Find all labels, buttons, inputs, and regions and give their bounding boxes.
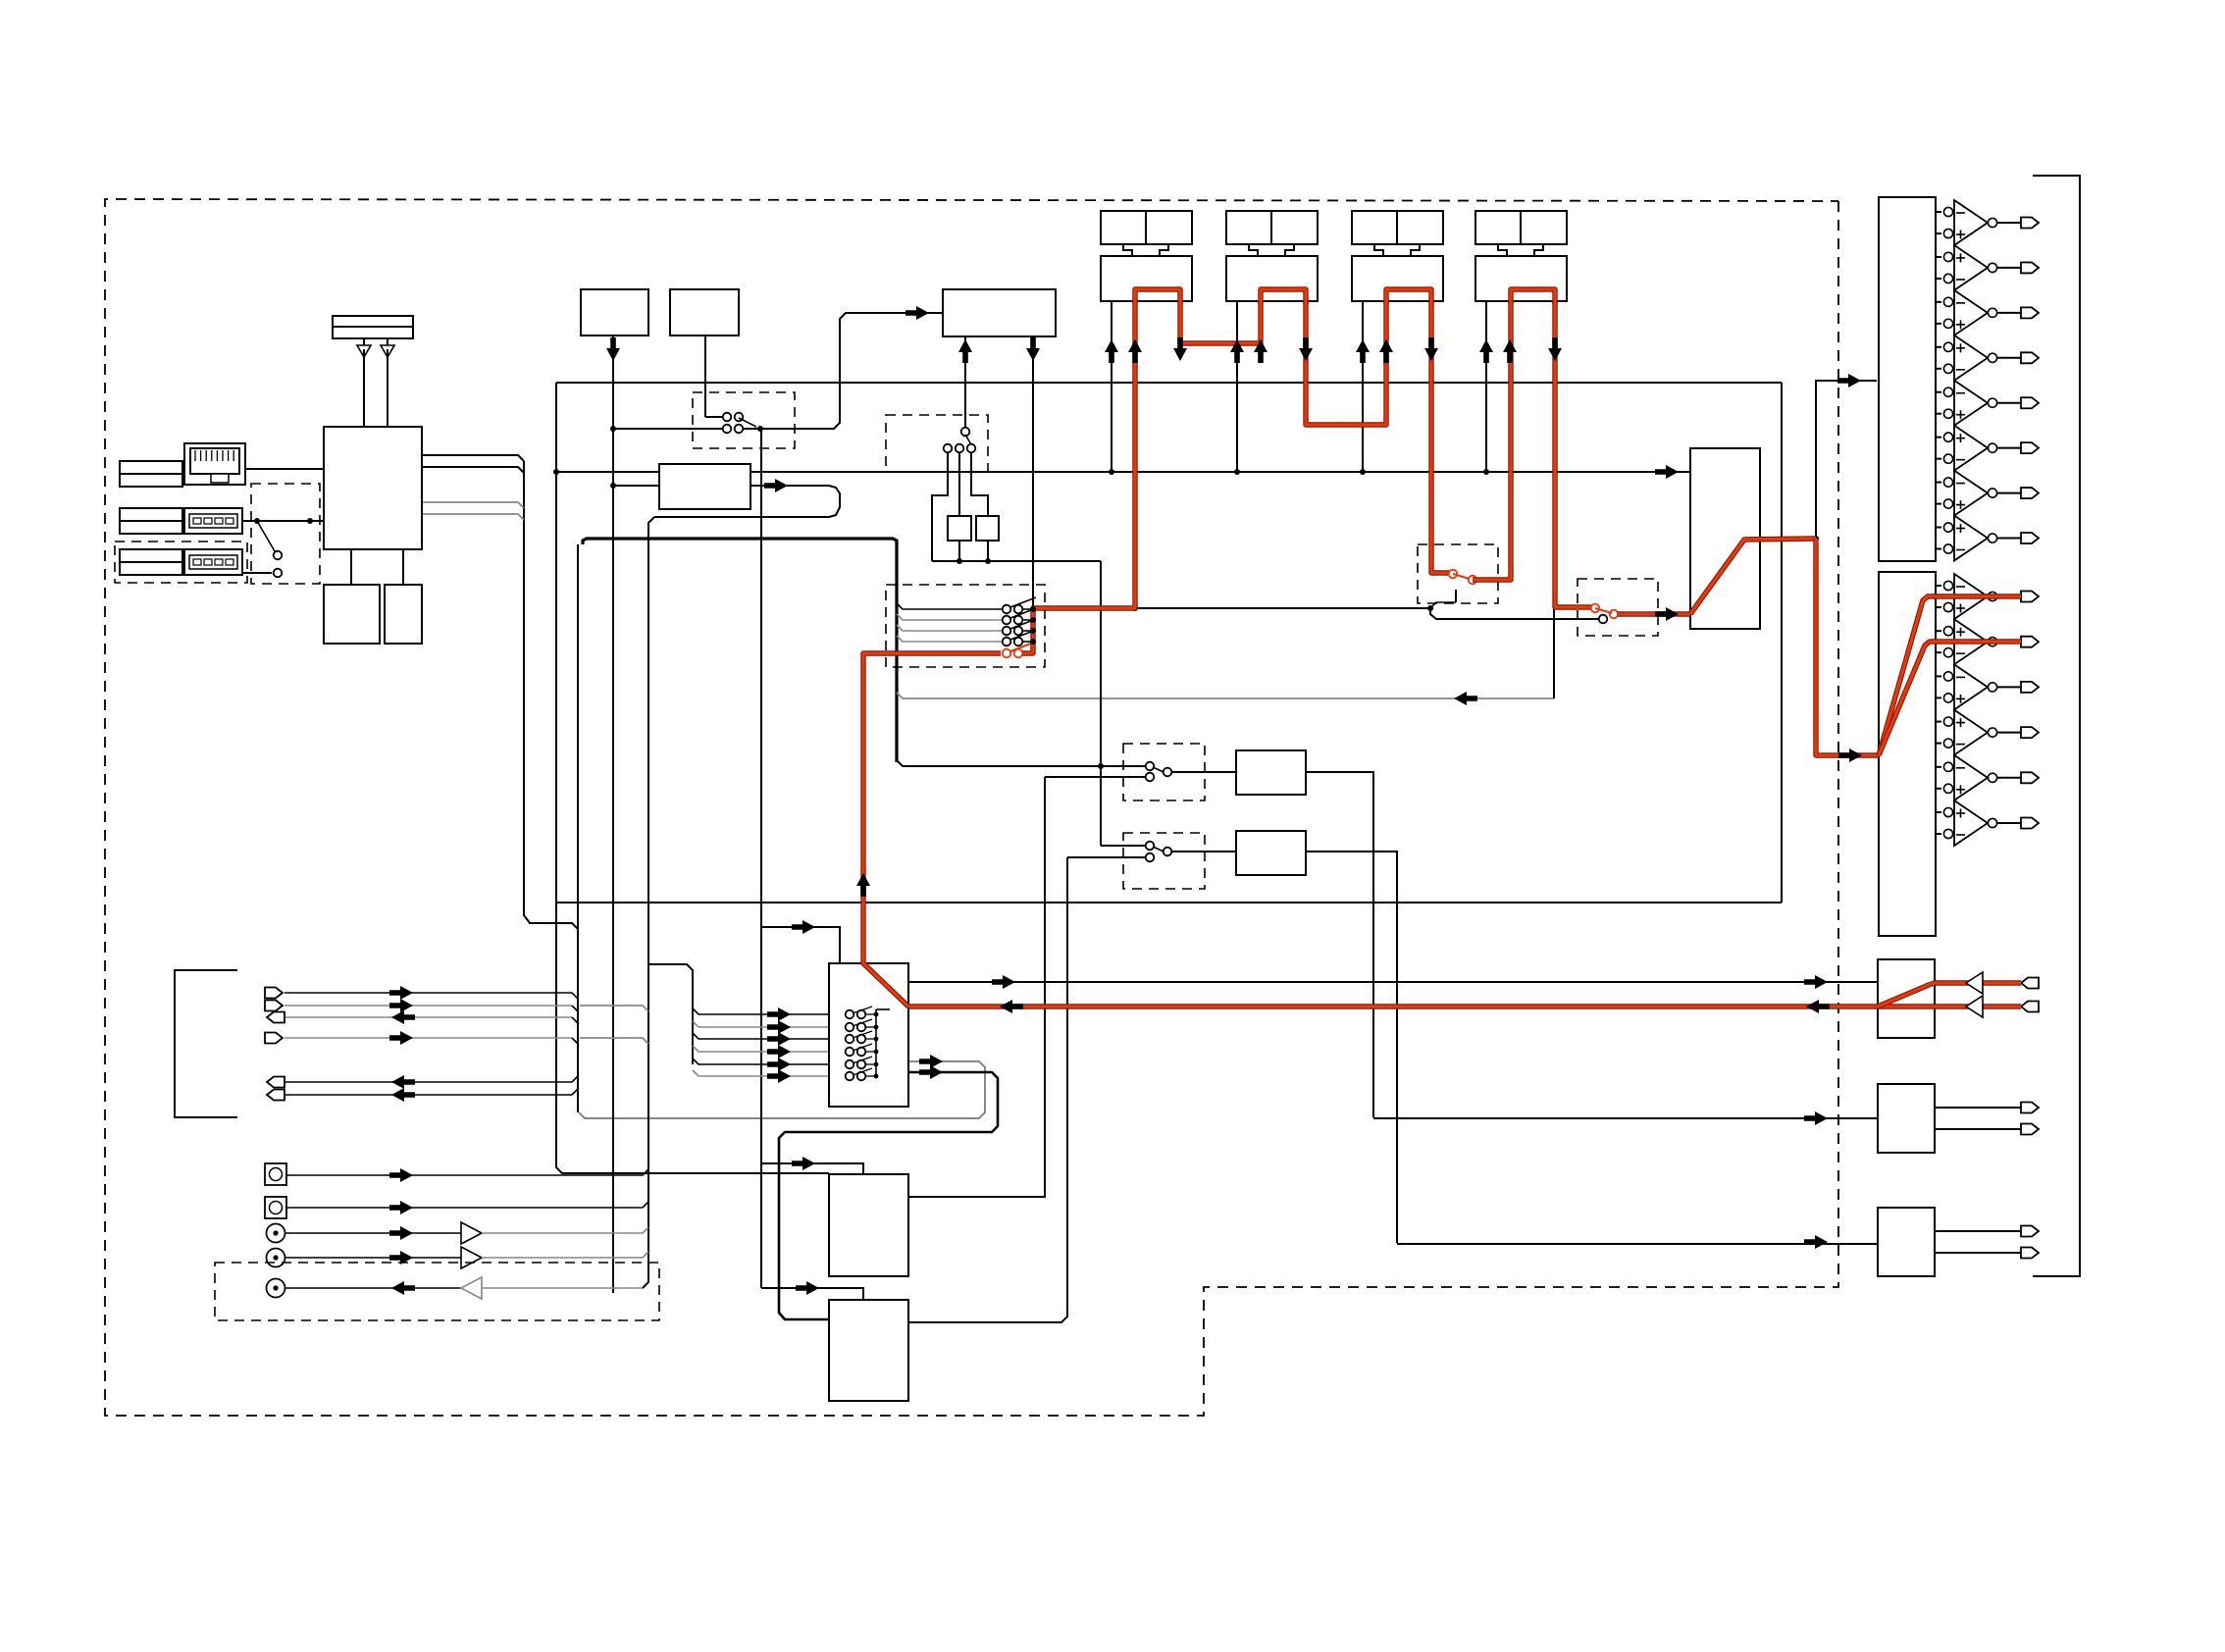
wire xtal bus y572	[932, 560, 1101, 562]
channel 1 links	[1123, 244, 1168, 256]
wire D1 alt y792	[1045, 776, 1146, 778]
channel 1 main box	[1101, 256, 1192, 301]
block pll	[943, 289, 1056, 336]
antenna symbols	[357, 338, 394, 427]
switchB dashed box	[1578, 579, 1658, 636]
wire osc2 down	[704, 336, 706, 417]
channel 3 arrows	[0, 0, 1, 1]
usb select switch	[242, 518, 324, 577]
wire riser C x706	[648, 964, 693, 1064]
bank1 opamps	[1936, 200, 2039, 561]
wire pll up line	[964, 336, 966, 428]
wire bank1 feed	[1816, 381, 1877, 539]
phones amp triangles	[1966, 972, 1983, 1017]
wire E1 out	[1306, 772, 1373, 1117]
coax jack 1	[267, 1222, 649, 1244]
channel 2 head box	[1226, 211, 1318, 244]
wire bus y920	[556, 902, 1782, 903]
arrow overlay layer	[389, 306, 1862, 1295]
selector switch rows	[897, 597, 1036, 645]
rj45 jack	[184, 443, 245, 485]
bank2 opamps	[1936, 574, 2039, 846]
usb dashed box	[115, 542, 247, 583]
wire channel 4 ctrl	[1483, 301, 1489, 475]
channel 1 arrows	[0, 0, 1, 1]
wire x1122	[1098, 561, 1104, 846]
selector bus	[1032, 608, 1034, 653]
wire phones feed y1001	[908, 981, 1878, 983]
wire mix input rows	[693, 1008, 829, 1076]
block E1	[1236, 750, 1306, 795]
wire riser B x661	[643, 517, 654, 1288]
D1 dashed box	[1123, 744, 1205, 800]
terminal bars 2	[120, 508, 182, 534]
channel 2 links	[1249, 244, 1294, 256]
wire mix out gray loop	[579, 1061, 985, 1118]
block dac b	[829, 1300, 908, 1401]
crystal X2	[976, 516, 999, 541]
terminal bars 1	[120, 461, 182, 487]
block host mcu	[613, 464, 750, 509]
wire ch2 out vert	[1306, 301, 1386, 425]
wire ch1 in vert	[1132, 301, 1138, 611]
wire monitor feed y1140	[1373, 1117, 1878, 1119]
bank1 box	[1879, 197, 1936, 561]
node bank feed split	[1813, 536, 1819, 542]
wire main bus y481	[553, 469, 1690, 475]
switch1 contacts	[613, 413, 763, 434]
D1 switch	[1146, 762, 1236, 782]
switchA wiring	[1427, 573, 1456, 611]
crystal X1	[948, 516, 971, 541]
channel 1 head box	[1101, 211, 1192, 244]
optical jack 1	[265, 1163, 648, 1185]
wire pll down line	[1032, 336, 1034, 608]
wire channel 1 ctrl	[1109, 301, 1114, 475]
channel 4 main box	[1475, 256, 1567, 301]
wire xtal3 path	[971, 452, 991, 564]
wire ch3 out vert	[1430, 301, 1432, 573]
channel 3 links	[1374, 244, 1420, 256]
tuner sub block 2	[385, 549, 422, 644]
channel 2 arrows	[0, 0, 1, 1]
wire ch1 out vert	[1180, 301, 1261, 343]
wire host out P1	[654, 486, 840, 517]
wire xtal2 path	[957, 452, 962, 564]
bank2 feed arrow	[1816, 754, 1879, 756]
block osc2	[670, 289, 739, 336]
wire ch4 in vert	[1510, 301, 1512, 580]
wire dac b feed y1313	[761, 1288, 863, 1300]
block phones amp	[1878, 959, 1935, 1038]
dashed out box	[215, 1263, 659, 1320]
wire switch1 to pll	[760, 313, 943, 429]
channel 4 links	[1498, 244, 1543, 256]
selector dashed box	[886, 585, 1045, 667]
wire riser host x776	[760, 429, 762, 1288]
wire selector feed chamfer	[897, 760, 1148, 766]
wire channel 3 ctrl	[1360, 301, 1366, 475]
wire channel 2 ctrl	[1234, 301, 1240, 475]
block osc1	[581, 289, 648, 336]
wire monitor feed y1268	[1397, 1243, 1878, 1245]
usb jack 2	[184, 549, 242, 575]
red path up arrow	[0, 0, 1, 1]
wire bus y620	[1033, 607, 1430, 609]
wire dac c feed y1186	[761, 1163, 863, 1174]
block output router	[1690, 448, 1760, 629]
wire rj45 to tuner	[245, 468, 324, 470]
tuner sub block 1	[324, 549, 380, 644]
phones jacks	[2021, 978, 2039, 1012]
node osc1 junction	[610, 426, 616, 489]
coax out jack	[267, 1277, 644, 1299]
wire riser tuner x534	[524, 461, 578, 929]
wire ch4 out vert	[1554, 301, 1556, 608]
wire xtal1 path	[932, 452, 948, 561]
usb jack 1	[184, 508, 242, 534]
wire link risers y1058	[580, 1038, 648, 1044]
wire riser clock x567	[556, 383, 829, 1173]
monitor out wires	[1935, 1103, 2039, 1135]
channel 4 arrows	[0, 0, 1, 1]
wire tuner outs	[422, 455, 524, 520]
wire rec return vert	[1553, 608, 1555, 698]
block monitor out	[1878, 1084, 1935, 1153]
wire thick bus y549	[583, 539, 897, 762]
optical jack 2	[265, 1197, 648, 1218]
wire gray rec y712	[897, 693, 1554, 698]
analog frame bracket	[2033, 176, 2080, 1276]
D2 dashed box	[1123, 833, 1205, 889]
D2 switch	[1101, 842, 1236, 862]
block mix dsp	[829, 963, 908, 1107]
usb select dashed box	[251, 484, 320, 584]
wire clock riser x1816	[1781, 383, 1783, 903]
channel 2 main box	[1226, 256, 1318, 301]
bracket digital group	[175, 970, 237, 1117]
wire link risers y1025	[580, 1006, 648, 1011]
switch2 dashed box	[886, 415, 988, 472]
red highlighted signal path	[863, 289, 2021, 1007]
channel 3 main box	[1352, 256, 1443, 301]
channel 4 head box	[1475, 211, 1567, 244]
wire E2 out	[1306, 852, 1397, 1243]
antenna box	[333, 316, 413, 338]
switchA dashed box	[1418, 544, 1498, 603]
wire b out y1348	[908, 857, 1067, 1322]
phones wiring	[1817, 983, 2021, 1007]
wire mix out black loop	[779, 1072, 998, 1319]
wire riser x625	[612, 336, 614, 1293]
wire riser A x589	[577, 544, 579, 1112]
wire c out y1220	[908, 777, 1045, 1197]
switchB open contact	[1599, 615, 1608, 624]
wire mix top feed y945	[761, 927, 840, 964]
bank2 box	[1879, 572, 1936, 936]
digital io plugs	[265, 988, 578, 1101]
tuner block	[324, 427, 422, 549]
coax jack 2	[267, 1247, 649, 1268]
wire osc1 down arrow	[0, 0, 1, 1]
mix internal switches	[846, 1007, 890, 1080]
block line out	[1878, 1208, 1935, 1276]
wire clock bus y390	[556, 382, 1782, 384]
wire D2 alt y874	[1067, 856, 1146, 858]
wire switchB out	[1614, 613, 1690, 615]
line out wires	[1935, 1226, 2039, 1259]
block dac c	[829, 1174, 908, 1276]
channel 3 head box	[1352, 211, 1443, 244]
terminal bars 3	[120, 549, 182, 575]
switch1 dashed box	[693, 392, 795, 448]
wire stub y632 to switchB	[1430, 608, 1598, 619]
switch2 3pos	[944, 428, 976, 453]
outer dashed boundary	[105, 199, 1838, 1416]
block E2	[1236, 831, 1306, 875]
